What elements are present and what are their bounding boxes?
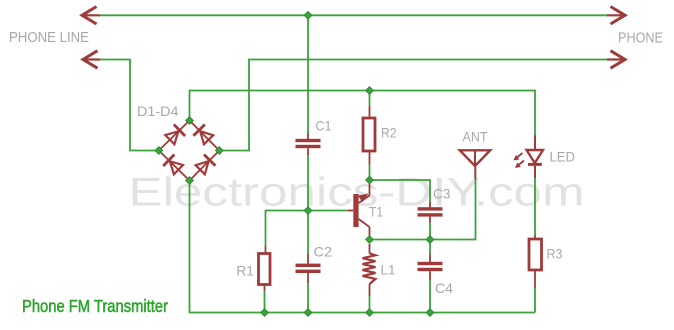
- diode bridge D1-D4: [159, 121, 220, 181]
- wire L1 bottom: [369, 295, 371, 313]
- node bridge top: [186, 117, 194, 125]
- svg-text:L1: L1: [381, 261, 396, 277]
- node C3 C4: [426, 236, 434, 244]
- wire C3 bottom to junction: [429, 222, 431, 240]
- node rail C4: [426, 309, 434, 317]
- arrow right lower: [611, 51, 626, 68]
- node emitter / L1: [366, 236, 374, 244]
- node collector: [366, 176, 374, 184]
- wire R2 bottom to collector junction: [369, 164, 371, 180]
- svg-text:T1: T1: [369, 203, 383, 219]
- svg-text:PHONE LINE: PHONE LINE: [9, 30, 89, 46]
- wire base net: [266, 211, 349, 247]
- wire C4 bottom: [429, 279, 431, 313]
- arrow right top: [611, 7, 626, 25]
- resistor R3: [529, 235, 542, 288]
- diode D1 (left-top): [165, 131, 178, 144]
- wire C1 C2 column: [307, 15, 309, 133]
- diode D2 (right-top): [200, 131, 213, 144]
- wire R1 bottom: [264, 290, 266, 313]
- wire R2 top: [369, 91, 371, 107]
- wire bottom rail: [190, 183, 536, 313]
- svg-text:Phone FM Transmitter: Phone FM Transmitter: [22, 296, 168, 316]
- diode D4 (bottom-right): [196, 161, 209, 174]
- node rail L1: [366, 309, 374, 317]
- svg-text:C4: C4: [435, 280, 453, 296]
- svg-text:PHONE: PHONE: [618, 31, 663, 47]
- capacitor C3: [418, 202, 443, 223]
- node top rail / C1: [304, 12, 312, 20]
- svg-text:LED: LED: [550, 148, 576, 164]
- wire bridge right to phone lower right: [223, 60, 608, 151]
- capacitor C1: [296, 133, 321, 155]
- node rail R1: [261, 309, 269, 317]
- bridge edges: [159, 121, 220, 181]
- svg-text:ANT: ANT: [463, 128, 488, 144]
- svg-text:C2: C2: [314, 244, 333, 260]
- inductor L1: [363, 244, 376, 296]
- arrow left top: [82, 7, 97, 25]
- svg-text:D1-D4: D1-D4: [137, 103, 179, 119]
- LED: [514, 136, 543, 179]
- capacitor C4: [418, 255, 443, 280]
- LED arrows: [516, 153, 523, 158]
- wire R3 bottom to rail: [534, 287, 536, 313]
- wire collector junction to C3: [370, 180, 431, 202]
- wire top rail: [100, 14, 608, 16]
- svg-text:C1: C1: [316, 117, 332, 133]
- node base / C column: [304, 207, 312, 215]
- svg-text:R2: R2: [381, 125, 397, 141]
- wire emitter junction to ANT: [370, 178, 476, 240]
- arrow left lower: [83, 51, 98, 68]
- antenna ANT: [460, 150, 490, 178]
- capacitor C2: [296, 254, 321, 283]
- wire junction to C4: [429, 243, 431, 255]
- svg-text:R1: R1: [236, 262, 254, 278]
- wire phone-line lower left: [100, 60, 155, 151]
- wire bridge top to LED top: [190, 91, 536, 136]
- node bridge bottom: [186, 177, 194, 185]
- diode D3 (bottom-left): [170, 161, 183, 174]
- resistor R1: [259, 246, 271, 291]
- node bridge right: [216, 147, 224, 155]
- transistor T1: [348, 183, 370, 237]
- node R2 top: [366, 87, 374, 95]
- node rail C2: [304, 309, 312, 317]
- node bridge left: [155, 147, 163, 155]
- svg-text:R3: R3: [547, 245, 563, 261]
- wire LED to R3: [534, 178, 536, 236]
- resistor R2: [363, 106, 375, 165]
- svg-text:C3: C3: [433, 186, 451, 202]
